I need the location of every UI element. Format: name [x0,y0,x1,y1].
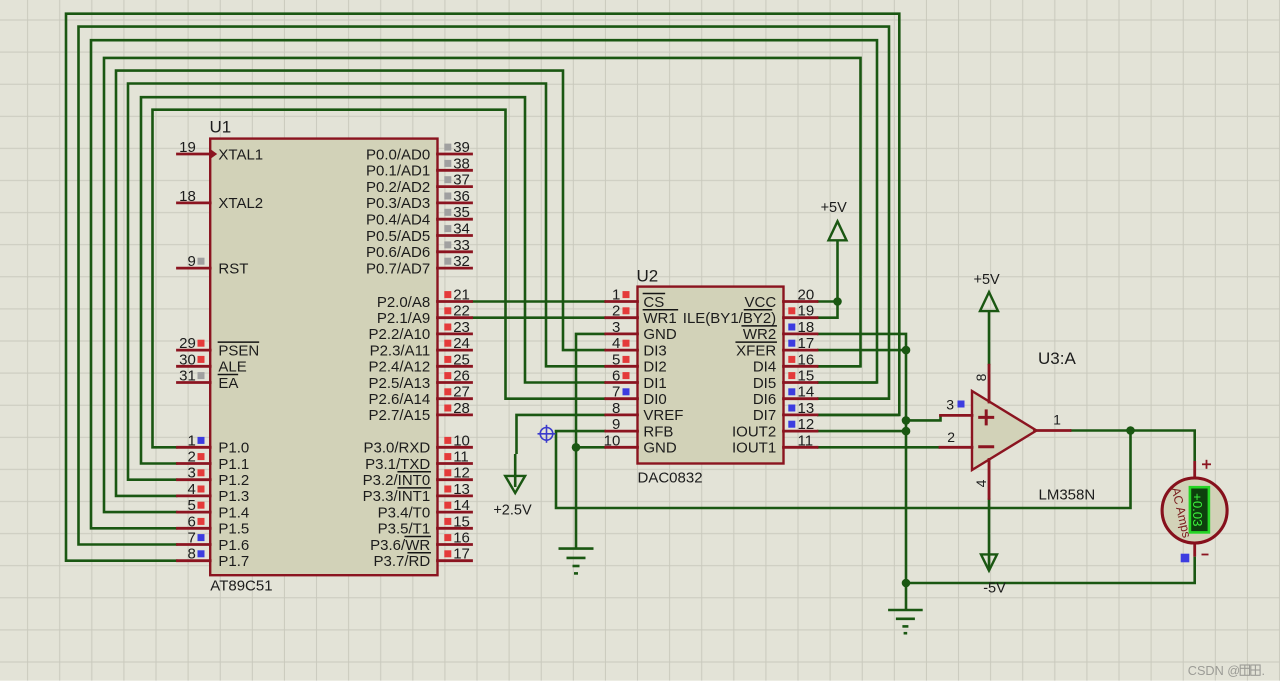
wire P2.0/A8 to CS [472,300,606,303]
svg-text:6: 6 [612,368,620,385]
svg-text:ILE(BY1/BY2): ILE(BY1/BY2) [683,310,776,327]
svg-text:P0.5/AD5: P0.5/AD5 [366,228,430,245]
svg-text:P1.4: P1.4 [218,504,249,521]
power -5V arrow [981,554,997,570]
svg-text:25: 25 [453,351,470,368]
svg-text:WR2: WR2 [743,326,776,343]
svg-text:1: 1 [612,287,620,304]
svg-text:P0.6/AD6: P0.6/AD6 [366,244,430,261]
svg-text:P1.7: P1.7 [218,553,249,570]
svg-text:+2.5V: +2.5V [493,503,532,519]
svg-text:CS: CS [643,294,664,311]
wire WR2 pin18 down main net [817,334,906,609]
svg-text:EA: EA [218,375,238,392]
svg-text:2: 2 [187,449,195,466]
U2 pin 8 VREF [606,413,638,416]
pin 33 P0.6/AD6 [438,250,472,253]
pin 4 P1.3 [178,494,211,497]
svg-text:11: 11 [798,432,814,449]
svg-text:P3.6/WR: P3.6/WR [370,537,430,554]
pin 27 P2.6/A14 [438,397,472,400]
svg-text:DI0: DI0 [643,391,666,408]
svg-text:13: 13 [798,400,815,417]
wire P1.6 to DI6 [79,27,890,545]
pin 8 P1.7 [178,559,211,562]
svg-text:12: 12 [453,465,470,482]
U2 pin 9 RFB [606,430,638,433]
bottom white strip [0,681,1280,685]
svg-text:IOUT2: IOUT2 [732,423,776,440]
svg-text:VREF: VREF [643,407,683,424]
svg-text:P2.0/A8: P2.0/A8 [377,294,430,311]
pin 38 P0.1/AD1 [438,169,472,172]
svg-text:DI6: DI6 [753,391,776,408]
wire opamp output to meter [1070,431,1195,462]
svg-text:3: 3 [946,397,954,413]
svg-text:8: 8 [187,546,195,563]
pin 39 P0.0/AD0 [438,153,472,156]
svg-text:DI5: DI5 [753,375,776,392]
wire U2 pin3 GND down to ground [576,334,606,549]
pin 6 P1.5 [178,527,211,530]
svg-text:RFB: RFB [643,423,673,440]
power +2.5V arrow [514,454,517,487]
wire P1.4 to DI4 [104,58,861,512]
wire VREF [517,415,606,454]
svg-text:6: 6 [187,513,195,530]
pin 24 P2.3/A11 [438,349,472,352]
svg-text:7: 7 [187,530,195,547]
wire P2.1/A9 to WR1 [472,316,606,319]
svg-text:35: 35 [453,204,470,221]
svg-text:14: 14 [798,384,815,401]
U2 pin 11 IOUT1 [784,446,818,449]
svg-text:9: 9 [187,253,195,270]
svg-text:5: 5 [187,497,195,514]
U2 pin 16 DI4 [784,365,818,368]
svg-text:18: 18 [798,319,815,336]
svg-text:P3.0/RXD: P3.0/RXD [363,440,430,457]
svg-text:P3.3/INT1: P3.3/INT1 [363,488,431,505]
U2 pin 4 DI3 [606,349,638,352]
svg-text:P2.7/A15: P2.7/A15 [368,407,430,424]
svg-text:VCC: VCC [745,294,777,311]
svg-text:37: 37 [453,172,470,189]
svg-text:P0.7/AD7: P0.7/AD7 [366,260,430,277]
svg-text:19: 19 [179,139,196,156]
svg-text:31: 31 [179,368,196,385]
svg-text:30: 30 [179,351,196,368]
svg-text:IOUT1: IOUT1 [732,440,776,457]
svg-text:8: 8 [973,373,989,381]
opamp plus input symbol [978,409,994,425]
svg-text:1: 1 [1053,412,1061,428]
svg-text:4: 4 [187,481,195,498]
svg-text:XFER: XFER [736,342,776,359]
wire XFER pin17 [817,349,906,352]
svg-text:24: 24 [453,335,470,352]
wire P1.3 to DI3 [116,71,606,496]
pin 13 P3.3/INT1 [438,494,472,497]
wire P1.1 to DI1 [141,97,606,463]
svg-text:.: . [1262,664,1266,678]
svg-text:16: 16 [798,351,815,368]
svg-text:17: 17 [798,335,815,352]
pin 17 P3.7/RD [438,559,472,562]
wire -5V rail to meter [906,557,1195,583]
U2 pin 6 DI1 [606,381,638,384]
pin 12 P3.2/INT0 [438,478,472,481]
junction opamp pin3 net [902,416,911,425]
svg-text:P1.1: P1.1 [218,456,249,473]
svg-text:P3.2/INT0: P3.2/INT0 [363,472,431,489]
svg-text:WR1: WR1 [643,310,676,327]
svg-text:P3.5/T1: P3.5/T1 [378,521,431,538]
svg-text:DAC0832: DAC0832 [638,470,703,487]
svg-text:15: 15 [453,513,470,530]
opamp minus input symbol [978,445,994,448]
svg-text:21: 21 [453,287,470,304]
wire P1.2 to DI2 [128,84,606,480]
junction VCC [833,297,842,306]
wire P1.0 to DI0 [153,110,606,448]
pin 14 P3.4/T0 [438,511,472,514]
svg-text:+5V: +5V [973,272,1000,288]
svg-text:DI4: DI4 [753,359,776,376]
U2 pin 13 DI7 [784,413,818,416]
svg-text:15: 15 [798,368,815,385]
svg-text:GND: GND [643,326,677,343]
U2 pin 18 WR2 [784,332,818,335]
pin 19 XTAL1 [178,153,211,156]
svg-text:27: 27 [453,384,470,401]
svg-text:AT89C51: AT89C51 [210,578,272,595]
svg-text:8: 8 [612,400,620,417]
wire IOUT2 pin12 [817,430,906,433]
svg-text:+0.03: +0.03 [1190,493,1205,526]
U2 pin 7 DI0 [606,397,638,400]
svg-text:CSDN @: CSDN @ [1188,664,1240,678]
pin 11 P3.1/TXD [438,462,472,465]
ground symbol U2 [559,549,594,574]
junction bottom net [902,579,911,588]
svg-text:P0.2/AD2: P0.2/AD2 [366,179,430,196]
svg-text:34: 34 [453,221,470,238]
svg-text:18: 18 [179,188,196,205]
pin 10 P3.0/RXD [438,446,472,449]
pin 31 EA [178,381,211,384]
svg-text:14: 14 [453,497,470,514]
svg-text:P2.4/A12: P2.4/A12 [368,359,430,376]
svg-text:36: 36 [453,188,470,205]
wire RFB feedback [556,431,1131,509]
svg-text:2: 2 [947,429,955,445]
U2 pin 1 CS [606,300,638,303]
U2 pin 2 WR1 [606,316,638,319]
U2 pin 12 IOUT2 [784,430,818,433]
wire DI7 [817,414,899,417]
svg-text:23: 23 [453,319,470,336]
svg-text:3: 3 [612,319,620,336]
node origin marker [538,425,556,443]
pin 25 P2.4/A12 [438,365,472,368]
svg-text:9: 9 [612,416,620,433]
svg-text:12: 12 [798,416,815,433]
U2 pin 20 VCC [784,300,818,303]
svg-text:+5V: +5V [821,200,848,216]
pin 1 P1.0 [178,446,211,449]
ammeter AC Amps [1162,460,1227,563]
wire U2 pin10 GND [576,446,606,449]
svg-text:U1: U1 [210,118,232,137]
wire to opamp pin3 [906,415,941,420]
ground symbol right [888,610,923,633]
svg-text:11: 11 [453,449,469,466]
svg-text:20: 20 [798,287,815,304]
wire VCC pin20 [817,300,838,303]
wire DI5 [817,381,877,384]
U2 pin 15 DI5 [784,381,818,384]
svg-text:4: 4 [612,335,620,352]
pin 37 P0.2/AD2 [438,185,472,188]
junction GND net [572,443,581,452]
svg-text:-5V: -5V [983,581,1006,597]
svg-text:PSEN: PSEN [218,342,259,359]
svg-text:28: 28 [453,400,470,417]
svg-text:U3:A: U3:A [1038,349,1076,368]
junction XFER [902,346,911,355]
svg-text:P0.4/AD4: P0.4/AD4 [366,212,430,229]
svg-text:1: 1 [187,432,195,449]
wire P1.7 to DI7 [66,14,899,561]
U2 pin 14 DI6 [784,397,818,400]
svg-text:DI2: DI2 [643,359,666,376]
svg-text:P1.5: P1.5 [218,521,249,538]
pin 15 P3.5/T1 [438,527,472,530]
svg-text:P2.6/A14: P2.6/A14 [368,391,430,408]
svg-text:7: 7 [612,384,620,401]
svg-text:13: 13 [453,481,470,498]
svg-text:GND: GND [643,440,677,457]
svg-text:P3.1/TXD: P3.1/TXD [365,456,430,473]
svg-text:DI1: DI1 [643,375,666,392]
U2 pin 3 GND [606,332,638,335]
power +5V arrow U2 [836,240,839,301]
svg-text:RST: RST [218,260,248,277]
junction output/feedback [1126,426,1135,435]
opamp pin 4 stub [988,460,991,499]
pin 35 P0.4/AD4 [438,218,472,221]
svg-text:22: 22 [453,303,470,320]
pin 30 ALE [178,365,211,368]
wire DI4 [817,365,861,368]
svg-text:P0.0/AD0: P0.0/AD0 [366,146,430,163]
wire IOUT1 pin11 to opamp pin2 [817,446,940,449]
svg-text:DI7: DI7 [753,407,776,424]
svg-text:16: 16 [453,530,470,547]
pin 28 P2.7/A15 [438,413,472,416]
power +5V arrow opamp [988,311,991,365]
pin 36 P0.3/AD3 [438,201,472,204]
U2 pin 10 GND [606,446,638,449]
opamp pin 1 stub [1035,429,1071,432]
svg-text:LM358N: LM358N [1039,487,1096,504]
opamp pin 2 stub [940,446,972,449]
svg-text:26: 26 [453,368,470,385]
svg-text:38: 38 [453,155,470,172]
pin 16 P3.6/WR [438,543,472,546]
pin 32 P0.7/AD7 [438,267,472,270]
svg-text:P2.1/A9: P2.1/A9 [377,310,430,327]
svg-text:P2.2/A10: P2.2/A10 [368,326,430,343]
wire pin19 ILE [817,302,838,318]
svg-text:ALE: ALE [218,359,246,376]
svg-text:3: 3 [187,465,195,482]
pin 23 P2.2/A10 [438,332,472,335]
svg-text:19: 19 [798,303,815,320]
svg-text:32: 32 [453,253,470,270]
pin 18 XTAL2 [178,201,211,204]
pin 22 P2.1/A9 [438,316,472,319]
wire opamp pin4 down [988,498,991,568]
pin 29 PSEN [178,349,211,352]
chip U2 DAC0832 [637,267,784,487]
pin 3 P1.2 [178,478,211,481]
U2 pin 17 XFER [784,349,818,352]
svg-text:DI3: DI3 [643,342,666,359]
svg-text:10: 10 [453,432,470,449]
pin 21 P2.0/A8 [438,300,472,303]
op-amp U3:A LM358N [972,349,1095,504]
svg-text:P3.7/RD: P3.7/RD [373,553,430,570]
svg-text:P1.3: P1.3 [218,488,249,505]
pin 2 P1.1 [178,462,211,465]
svg-text:17: 17 [453,546,470,563]
opamp pin 3 stub [941,414,973,417]
wire DI6 [817,397,889,400]
svg-text:2: 2 [612,303,620,320]
svg-text:XTAL2: XTAL2 [218,195,263,212]
pin 26 P2.5/A13 [438,381,472,384]
chip U1 AT89C51 [210,118,438,595]
opamp pin 8 stub [988,365,991,402]
svg-text:10: 10 [604,432,621,449]
svg-text:29: 29 [179,335,196,352]
U2 pin 5 DI2 [606,365,638,368]
svg-text:P0.3/AD3: P0.3/AD3 [366,195,430,212]
junction IOUT2 [902,427,911,436]
svg-text:5: 5 [612,351,620,368]
svg-text:P0.1/AD1: P0.1/AD1 [366,163,430,180]
wire P1.5 to DI5 [91,40,877,528]
svg-text:P1.6: P1.6 [218,537,249,554]
svg-text:39: 39 [453,139,470,156]
pin 9 RST [178,267,211,270]
pin 7 P1.6 [178,543,211,546]
svg-text:P1.2: P1.2 [218,472,249,489]
pin 5 P1.4 [178,511,211,514]
svg-text:P2.5/A13: P2.5/A13 [368,375,430,392]
svg-text:P3.4/T0: P3.4/T0 [378,504,431,521]
svg-text:P1.0: P1.0 [218,440,249,457]
svg-text:33: 33 [453,237,470,254]
U2 pin 19 ILE(BY1/BY2) [784,316,818,319]
pin 34 P0.5/AD5 [438,234,472,237]
svg-text:U2: U2 [637,267,659,286]
svg-text:XTAL1: XTAL1 [218,146,263,163]
svg-text:4: 4 [973,479,989,487]
svg-text:P2.3/A11: P2.3/A11 [370,342,431,359]
